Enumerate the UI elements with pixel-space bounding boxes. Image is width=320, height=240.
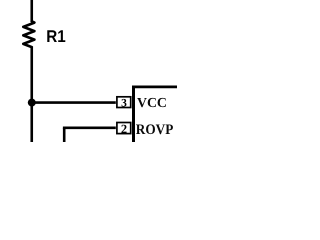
svg-text:3: 3 <box>121 97 127 109</box>
svg-text:ROVP: ROVP <box>136 122 174 138</box>
resistor R1 <box>23 21 34 47</box>
wire vertical stub to bottom edge <box>63 128 66 142</box>
svg-text:R1: R1 <box>46 27 65 46</box>
wire bottom lead of R1 down to bottom edge <box>30 47 33 142</box>
wire to pin 2 <box>63 127 116 130</box>
wire junction to pin 3 <box>32 101 116 104</box>
node junction dot <box>28 99 36 107</box>
pin 2 box <box>117 123 131 134</box>
pin 3 box <box>117 97 131 108</box>
wire top lead of R1 <box>30 0 33 22</box>
svg-text:2: 2 <box>121 122 127 136</box>
IC U1 left edge <box>132 86 135 143</box>
svg-text:VCC: VCC <box>137 95 167 110</box>
IC U1 top edge <box>132 86 177 89</box>
